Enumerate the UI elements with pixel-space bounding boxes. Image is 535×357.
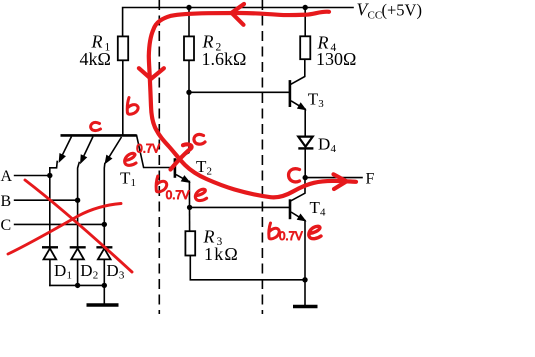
transistor T4 (290, 199, 305, 221)
red letter b left of T1 emitter (127, 98, 138, 115)
ground left (87, 303, 119, 306)
transistor T2 (175, 158, 190, 182)
svg-text:(+5V): (+5V) (382, 1, 422, 20)
svg-text:A: A (1, 168, 13, 185)
wire R4 top lead (304, 8, 306, 37)
svg-text:B: B (1, 193, 12, 210)
wire T4 collector (290, 178, 305, 202)
diode D1 (42, 247, 58, 259)
red letter b at T4 base (269, 223, 279, 239)
red X over inputs stroke 2 (8, 204, 121, 255)
red letter e below T1 (125, 153, 136, 165)
node dot R2/T3 base tap (186, 90, 191, 95)
wire T2 emitter vertical to R3 (188, 181, 190, 231)
wire input A (15, 175, 50, 177)
svg-text:1.6kΩ: 1.6kΩ (202, 49, 247, 69)
svg-text:4: 4 (320, 207, 326, 219)
wire T3 collector to R4 (291, 59, 305, 84)
diode D2 (70, 247, 86, 259)
red arrowhead down (left of R2) (139, 68, 164, 79)
red arrowhead left (top rail) (232, 4, 245, 25)
node dot bottom rail D2 (75, 283, 80, 288)
svg-text:130Ω: 130Ω (316, 49, 356, 69)
svg-text:2: 2 (207, 166, 213, 178)
svg-text:D: D (106, 261, 118, 280)
node dot bottom rail D3/ground (102, 283, 107, 288)
red X over inputs stroke 1 (25, 180, 132, 272)
red cross stroke at T2 base (171, 144, 192, 169)
dashed section line 1 (158, 0, 160, 314)
svg-text:4: 4 (331, 143, 337, 155)
resistor R4 (300, 36, 310, 59)
node dot rail-R2 (186, 5, 191, 10)
wire T3 emitter vertical to D4 (304, 109, 306, 135)
red letter c curl at T4 collector (289, 169, 300, 182)
svg-text:CC: CC (368, 10, 383, 22)
diode D3 (96, 247, 112, 259)
dashed section line 2 (261, 0, 263, 314)
svg-text:D: D (80, 261, 92, 280)
svg-text:T: T (120, 169, 131, 188)
wire D2 bottom (77, 260, 79, 286)
wire R3 bottom to right ground node (190, 256, 305, 280)
wire T4 base wire (190, 206, 289, 208)
resistor R2 (184, 36, 194, 60)
svg-text:3: 3 (318, 98, 324, 110)
svg-text:F: F (366, 171, 375, 188)
wire input B (15, 199, 78, 201)
red letter e at T2 emitter (195, 189, 206, 200)
wire emitter3 column (103, 164, 106, 247)
svg-text:0.7V: 0.7V (136, 143, 160, 155)
node dot T2 emitter (187, 205, 192, 210)
node dot input A (47, 173, 52, 178)
node dot F output (303, 175, 308, 180)
svg-text:2: 2 (93, 270, 99, 282)
transistor T3 (290, 80, 306, 110)
resistor R3 (185, 231, 195, 255)
wire D4 bottom lead to F node (304, 150, 306, 178)
svg-text:T: T (310, 198, 321, 217)
wire R2 top lead (188, 8, 190, 37)
svg-text:1: 1 (131, 177, 137, 189)
wire emitter1 column (50, 162, 57, 247)
svg-text:3: 3 (119, 270, 125, 282)
resistor R1 (118, 36, 128, 60)
wire emitter2 column (78, 163, 80, 247)
svg-text:D: D (318, 135, 330, 154)
ground right (293, 305, 318, 308)
red arrowhead right (at F) (334, 174, 347, 189)
red letter e at T4 emitter (309, 226, 321, 238)
transistor T1 multi-emitter (59, 135, 136, 163)
wire output F (305, 177, 362, 179)
red annotation: main current loop stroke (8, 4, 356, 272)
svg-text:0.7V: 0.7V (166, 190, 190, 202)
svg-text:0.7V: 0.7V (279, 231, 303, 243)
wire left ground stem (103, 285, 105, 303)
wire T3 base wire from R2 node (189, 91, 289, 93)
node dot bottom right (302, 277, 307, 282)
svg-text:1kΩ: 1kΩ (204, 244, 239, 264)
wire D3 bottom (103, 260, 105, 286)
svg-text:1: 1 (67, 270, 73, 282)
wire T1 collector to T2 base (137, 135, 174, 167)
wire bottom rail (50, 284, 104, 286)
svg-text:T: T (308, 90, 319, 109)
svg-text:4kΩ: 4kΩ (80, 49, 111, 69)
node dot rail-R4 (303, 5, 308, 10)
wire top rail Vcc (123, 8, 353, 37)
wire D1 bottom (49, 260, 51, 286)
svg-text:C: C (1, 217, 12, 234)
wire T4 emitter vertical (304, 221, 306, 306)
wire R2 bottom to T2 collector, node tap at y92.3 (176, 60, 189, 160)
wire R1 bottom lead (122, 60, 124, 134)
node dot input C (102, 222, 107, 227)
diode D4 (298, 137, 313, 149)
red letter b left of T2 base (156, 176, 167, 192)
red letter c above T2 (194, 134, 205, 144)
node dot input B (75, 198, 80, 203)
wire input C (15, 223, 105, 225)
red letter c above T1 (91, 122, 101, 130)
svg-text:D: D (54, 261, 66, 280)
